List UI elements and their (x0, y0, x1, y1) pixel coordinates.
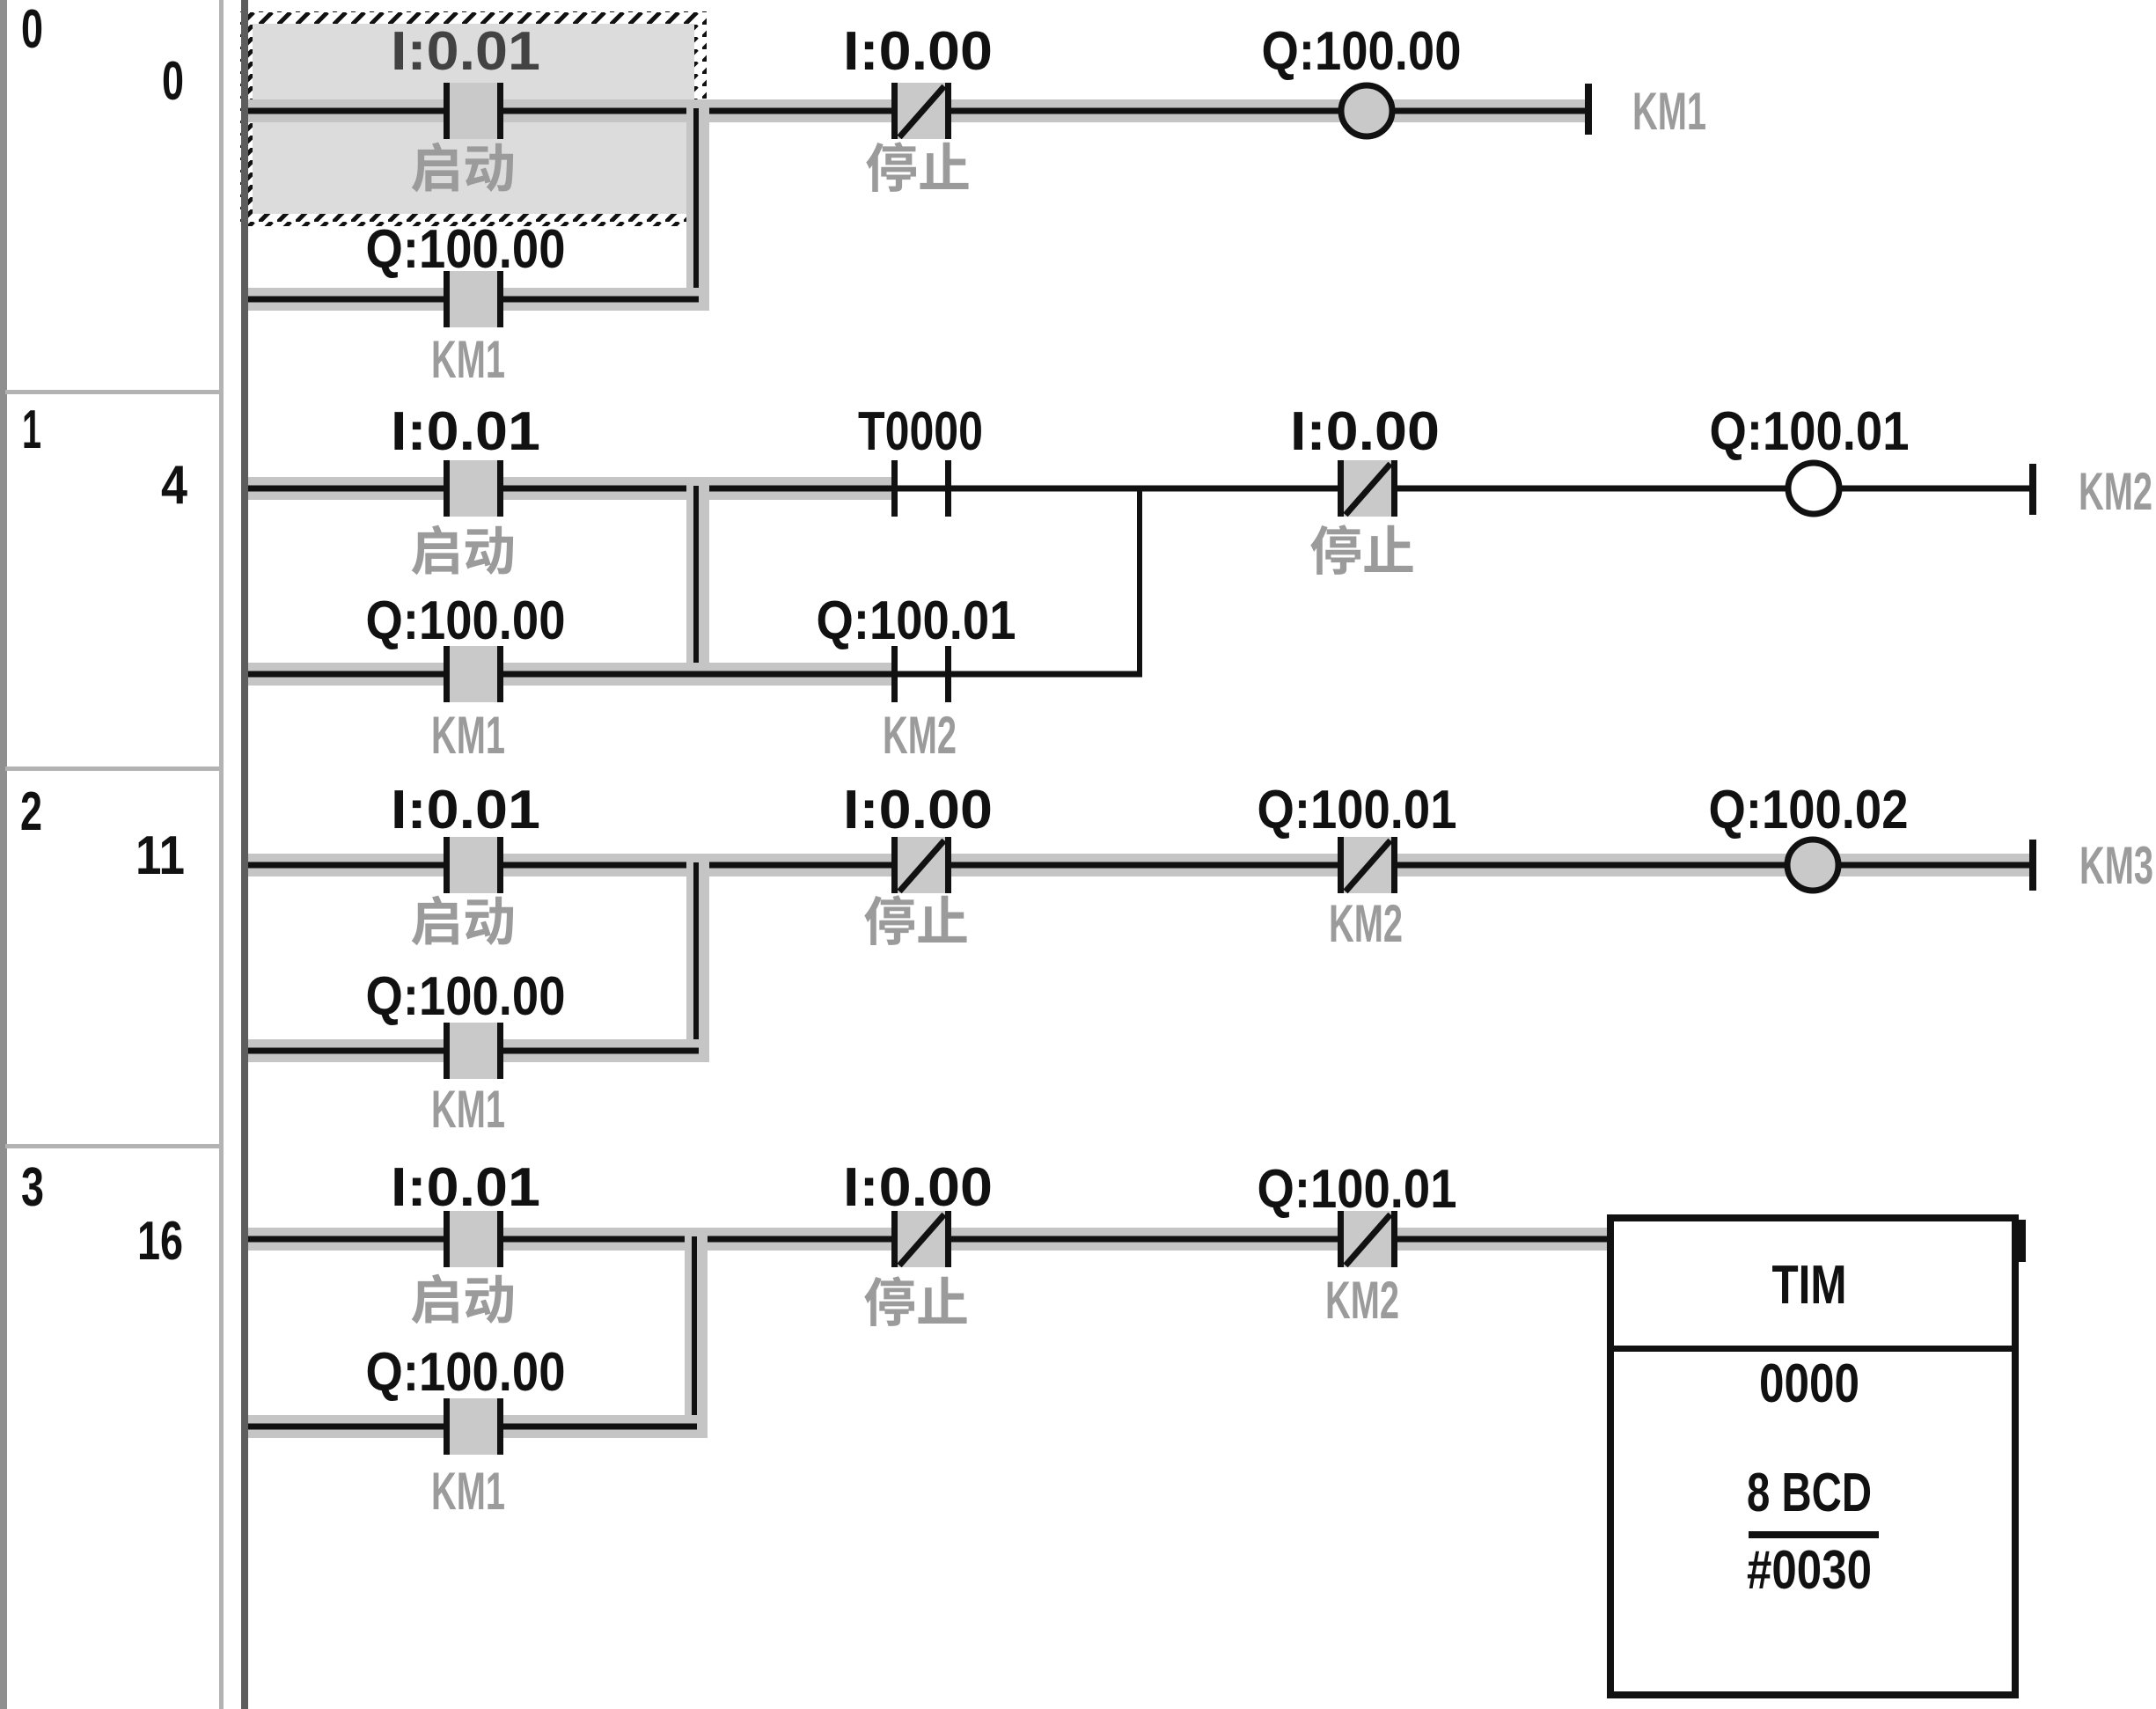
wire power-flow highlight rung2 branch energized (248, 1039, 708, 1062)
svg-text:I:0.00: I:0.00 (843, 21, 993, 82)
svg-text:KM1: KM1 (1632, 82, 1706, 141)
contact Q:100.00 NO KM1 (energized) rung1 branch (444, 646, 503, 702)
svg-text:I:0.01: I:0.01 (391, 780, 540, 840)
wire power-flow highlight rung3 main energized (248, 1228, 1607, 1251)
svg-text:0: 0 (21, 0, 43, 60)
contact I:0.01 NO start button (energized) rung2 (444, 837, 503, 893)
wire rung2 branch (248, 1048, 699, 1054)
comment label qidong (start) rung3 (412, 1274, 513, 1324)
svg-text:Q:100.00: Q:100.00 (366, 590, 566, 651)
comment label qidong (start) rung2 (412, 896, 513, 946)
comment label qidong (start) rung1 (412, 525, 513, 576)
svg-text:KM2: KM2 (883, 706, 957, 765)
svg-text:Q:100.01: Q:100.01 (1258, 780, 1457, 840)
svg-text:11: 11 (136, 825, 185, 886)
svg-text:2: 2 (20, 781, 42, 842)
wire rung3 main (248, 1236, 1610, 1243)
rung info column inner border (219, 0, 224, 1709)
contact I:0.01 NO start button (energized) rung1 (444, 460, 503, 517)
svg-text:I:0.00: I:0.00 (1290, 401, 1440, 462)
svg-text:KM1: KM1 (431, 706, 505, 765)
rung row separator 1 (5, 766, 224, 771)
coil Q:100.00 output KM1 (ON) rung0 (1341, 85, 1392, 136)
svg-text:Q:100.01: Q:100.01 (1258, 1159, 1457, 1220)
contact Q:100.01 NC KM2 interlock (energized) rung2 (1338, 837, 1397, 893)
svg-text:8 BCD: 8 BCD (1747, 1463, 1872, 1523)
svg-text:I:0.01: I:0.01 (391, 1157, 540, 1218)
timer box header divider (1607, 1346, 2019, 1352)
svg-text:KM1: KM1 (431, 330, 505, 389)
wire power-flow highlight rung0 main energized (248, 99, 1585, 122)
power-flow highlight of rung2 branch join vertical (686, 854, 709, 1062)
wire power-flow highlight rung2 main energized (248, 854, 2029, 877)
svg-text:16: 16 (137, 1211, 183, 1272)
svg-text:I:0.00: I:0.00 (843, 1157, 993, 1218)
svg-text:Q:100.00: Q:100.00 (366, 966, 566, 1027)
selection hatched border bottom (240, 214, 707, 226)
selection hatched border top (240, 11, 707, 24)
wire power-flow highlight rung0 branch energized (248, 288, 708, 311)
wire rung2 main (248, 862, 2029, 869)
wire rung1 main (248, 486, 2029, 492)
wire rung3 branch join vertical (692, 1236, 697, 1429)
selection hatched border left (240, 11, 253, 226)
svg-text:Q:100.02: Q:100.02 (1709, 780, 1909, 840)
contact I:0.01 NO start button (energized) rung0 (444, 83, 503, 139)
right power rail connection rung1 (2029, 464, 2036, 515)
rung row separator 0 (5, 390, 224, 394)
power-flow highlight of rung1 parallel group boundary vertical (686, 477, 709, 686)
svg-text:KM2: KM2 (1329, 894, 1403, 953)
svg-text:I:0.01: I:0.01 (391, 401, 540, 462)
contact Q:100.01 NO KM2 contact (open) rung1 branch (891, 646, 951, 702)
svg-text:I:0.00: I:0.00 (843, 780, 993, 840)
wire rung1 branch (248, 671, 1142, 678)
wire rung1 timer group end vertical (1137, 486, 1142, 677)
wire rung3 branch (248, 1424, 697, 1430)
power-flow highlight of rung3 branch join vertical (685, 1228, 708, 1438)
contact Q:100.00 NO KM1 latch (energized) rung0 branch (444, 271, 503, 327)
svg-text:0: 0 (162, 51, 184, 112)
wire power-flow highlight rung3 branch energized (248, 1415, 706, 1438)
svg-text:KM1: KM1 (431, 1462, 505, 1521)
contact I:0.00 NC stop button (energized) rung3 (891, 1211, 951, 1267)
comment label qidong (start) rung0 (412, 143, 513, 193)
contact T0000 NO timer contact (open) rung1 (891, 460, 951, 517)
svg-text:Q:100.00: Q:100.00 (366, 1342, 566, 1403)
svg-text:T0000: T0000 (858, 401, 983, 462)
comment label tingzhi (stop) rung1 (1310, 524, 1412, 575)
svg-text:Q:100.01: Q:100.01 (817, 590, 1016, 651)
svg-text:0000: 0000 (1759, 1353, 1859, 1414)
wire rung1 parallel group boundary vertical (693, 486, 699, 677)
selection hatched border right (694, 11, 707, 226)
contact Q:100.00 NO KM1 (energized) rung2 branch (444, 1023, 503, 1079)
contact I:0.00 NC stop button (energized) rung1 (1338, 460, 1397, 517)
contact Q:100.01 NC KM2 (energized) rung3 (1338, 1211, 1397, 1267)
svg-text:Q:100.01: Q:100.01 (1710, 401, 1910, 462)
wire power-flow highlight rung1 main energized (248, 477, 891, 500)
contact I:0.00 NC stop button (energized) rung2 (891, 837, 951, 893)
contact I:0.00 NC stop button (energized) rung0 (891, 83, 951, 139)
comment label tingzhi (stop) rung3 (864, 1276, 966, 1326)
svg-text:3: 3 (21, 1157, 44, 1218)
svg-text:I:0.01: I:0.01 (391, 21, 540, 82)
contact I:0.01 NO start button (energized) rung3 (444, 1211, 503, 1267)
svg-text:4: 4 (161, 455, 187, 516)
wire rung0 main rail-to-coil (248, 108, 1585, 114)
contact Q:100.00 NO KM1 (energized) rung3 branch (444, 1398, 503, 1455)
coil Q:100.02 output KM3 (ON) rung2 (1787, 840, 1838, 891)
selected cell highlight (editor cursor) on contact I:0.01 (240, 11, 707, 226)
svg-text:#0030: #0030 (1747, 1540, 1872, 1601)
power-flow highlight of rung0 branch join vertical (686, 99, 709, 311)
right power rail connection rung3 (2019, 1220, 2026, 1262)
comment label tingzhi (stop) rung0 (866, 142, 968, 192)
program window left edge (0, 0, 7, 1709)
svg-text:1: 1 (22, 400, 41, 460)
comment label tingzhi (stop) rung2 (864, 895, 966, 945)
coil Q:100.01 output KM2 (OFF) rung1 (1788, 463, 1839, 514)
svg-text:Q:100.00: Q:100.00 (1262, 21, 1462, 82)
svg-text:KM3: KM3 (2079, 836, 2153, 895)
rung row separator 2 (5, 1144, 224, 1148)
svg-text:KM2: KM2 (1325, 1271, 1399, 1330)
svg-text:Q:100.00: Q:100.00 (366, 219, 566, 280)
set value underline (1749, 1531, 1879, 1538)
left power rail (bus bar) (241, 0, 248, 1709)
wire rung2 branch join vertical (693, 862, 699, 1053)
wire power-flow highlight rung1 branch energized (248, 663, 891, 686)
timer instruction box TIM (1610, 1218, 2015, 1695)
right power rail connection rung0 (1585, 84, 1592, 135)
wire rung0 branch join vertical (693, 108, 699, 302)
right power rail connection rung2 (2029, 840, 2036, 891)
svg-text:KM1: KM1 (431, 1080, 505, 1139)
svg-text:KM2: KM2 (2079, 462, 2152, 521)
svg-text:TIM: TIM (1772, 1255, 1847, 1316)
wire rung0 branch (latch) (248, 297, 699, 303)
